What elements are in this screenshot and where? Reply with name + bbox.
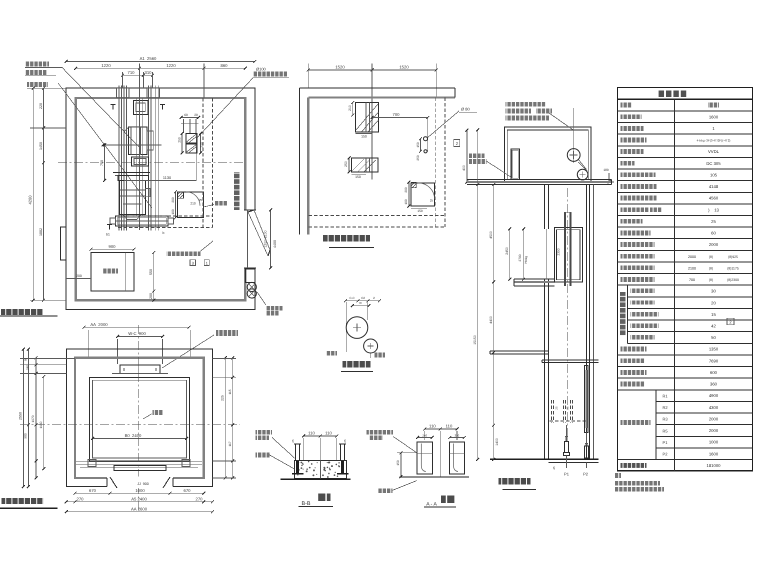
rail bracket top-left: [117, 88, 130, 98]
cw bracket dims: [181, 116, 199, 118]
svg-text:4200: 4200: [27, 195, 32, 205]
svg-text:A5 2400: A5 2400: [131, 497, 147, 502]
SEC landing slab 2: [514, 278, 555, 280]
svg-text:4900: 4900: [709, 393, 719, 398]
svg-text:70: 70: [358, 301, 362, 305]
svg-text:R2: R2: [662, 405, 668, 410]
svg-text:110: 110: [308, 431, 315, 436]
svg-text:2450: 2450: [505, 247, 509, 255]
shaft plan walls: [66, 349, 212, 487]
SEC dim door inner: [523, 229, 525, 279]
SEC buffer labels: [566, 459, 568, 468]
dim 1130: [124, 180, 196, 182]
svg-text:2000: 2000: [709, 242, 719, 247]
AA dim 110/110: [425, 428, 457, 430]
svg-text:15: 15: [711, 312, 716, 317]
motor body: [118, 176, 149, 181]
traction pulley: [364, 339, 378, 353]
svg-text:R3: R3: [662, 417, 668, 422]
table bottom label: [621, 463, 647, 468]
svg-text:220: 220: [39, 103, 43, 109]
svg-text:2100: 2100: [688, 266, 696, 270]
cw bracket rect upper: [186, 134, 197, 144]
vent hole box: [178, 192, 204, 218]
svg-text:4560: 4560: [709, 196, 719, 201]
svg-text:1000: 1000: [135, 488, 145, 493]
left dim line outer 4200: [32, 88, 34, 300]
machine shaft lines: [135, 98, 137, 216]
shaft projection dashed: [202, 98, 204, 228]
shaft plan left dims: [22, 349, 24, 487]
hole plan left wall: [298, 88, 300, 234]
SEC landing slab 3: [490, 350, 549, 352]
shaft plan bottom dim 3: [66, 511, 212, 513]
machine top square: [133, 101, 148, 115]
svg-text:200: 200: [171, 197, 175, 203]
svg-text:b: b: [163, 231, 165, 235]
svg-text:(8): (8): [709, 278, 713, 282]
svg-text:30: 30: [711, 289, 716, 294]
svg-text:4-bb,µ-3F(3-4T/2F)(-4T2): 4-bb,µ-3F(3-4T/2F)(-4T2): [697, 139, 731, 143]
anchor circles detail: [247, 282, 256, 291]
SEC deflector pulley: [577, 169, 588, 180]
SEC motor stand: [511, 149, 520, 180]
manhole leader: [257, 292, 266, 305]
traction ropes: [345, 302, 347, 328]
svg-text:25: 25: [291, 439, 295, 443]
svg-text:B-B: B-B: [302, 501, 311, 507]
svg-text:65: 65: [566, 406, 570, 410]
T mark bottom: [107, 224, 112, 226]
left extension lines: [30, 87, 66, 89]
shaft plan bottom dim 1: [75, 492, 204, 494]
table boxed 2: [727, 318, 734, 325]
T mark left: [111, 104, 116, 106]
svg-text:110: 110: [325, 431, 332, 436]
svg-text:150: 150: [417, 209, 423, 213]
svg-text:Ø 80: Ø 80: [461, 107, 470, 112]
table vertical label block: [620, 292, 626, 336]
hole 1 dims: [352, 103, 354, 116]
svg-text:60: 60: [711, 231, 716, 236]
svg-text:3: 3: [192, 261, 194, 265]
hole plan top wall: [299, 87, 455, 89]
cw bracket side dims: [181, 134, 183, 153]
svg-text:2700: 2700: [518, 254, 522, 261]
SEC shaft left wall: [544, 185, 546, 229]
svg-text:250: 250: [416, 155, 420, 161]
svg-text:P1: P1: [663, 440, 669, 445]
svg-text:60: 60: [24, 358, 28, 362]
svg-text:1600: 1600: [709, 451, 719, 456]
svg-text:310: 310: [455, 434, 460, 438]
T mark right: [160, 104, 165, 106]
svg-text:110: 110: [429, 424, 436, 429]
svg-text:20: 20: [711, 300, 716, 305]
traction labels: [326, 351, 337, 356]
svg-text:4148: 4148: [709, 184, 719, 189]
svg-text:25: 25: [343, 439, 347, 443]
hole plan ext lines: [307, 64, 309, 89]
SEC car buffer: [566, 425, 568, 441]
svg-text:1600: 1600: [709, 114, 719, 119]
leader text hoist beam: [25, 70, 47, 75]
svg-text:25: 25: [199, 198, 203, 202]
shaft plan dim AA2000: [84, 326, 189, 328]
svg-text:1200×2100: 1200×2100: [264, 230, 268, 247]
svg-text:4400: 4400: [489, 316, 493, 324]
svg-text:100: 100: [171, 209, 175, 215]
SEC main dim floors: [493, 185, 495, 460]
svg-text:45: 45: [552, 466, 556, 470]
svg-text:117: 117: [228, 441, 232, 446]
hook note: [166, 251, 200, 256]
svg-text:270: 270: [196, 497, 204, 502]
title shaft section: [499, 478, 531, 485]
motor bell flange: [113, 172, 150, 174]
AA left dim 150: [400, 453, 402, 477]
shaft plan right dims: [224, 358, 226, 478]
svg-text:1220: 1220: [166, 63, 176, 68]
shaft plan dim WC900: [118, 336, 163, 338]
svg-text:550: 550: [149, 269, 153, 275]
title shaft plan: [2, 498, 44, 504]
left wall niche: [61, 227, 67, 260]
svg-text:270: 270: [77, 497, 85, 502]
svg-text:20: 20: [194, 113, 198, 117]
SEC top notes: [506, 102, 546, 107]
SEC leader M16: [469, 154, 485, 159]
svg-text:2550: 2550: [19, 412, 23, 420]
notes: [615, 473, 621, 478]
motor internal lines: [119, 189, 145, 191]
shaft door sill top: [120, 365, 160, 374]
cabinet dim 550/200: [153, 253, 155, 301]
svg-text:Ø100: Ø100: [256, 67, 267, 72]
svg-text:25: 25: [711, 219, 716, 224]
svg-text:150: 150: [416, 142, 420, 148]
box mark 1: [204, 260, 209, 266]
svg-text:240: 240: [26, 365, 30, 370]
leader text shaft centerline: [27, 82, 48, 87]
svg-text:4300: 4300: [709, 405, 719, 410]
rail bracket leader: [162, 335, 214, 368]
svg-text:200: 200: [149, 293, 153, 299]
svg-text:1970: 1970: [31, 415, 35, 422]
AA leader sill: [367, 430, 394, 435]
svg-text:JJ 900: JJ 900: [137, 482, 149, 486]
svg-text:DC 305: DC 305: [706, 161, 721, 166]
machine mid square: [132, 157, 149, 166]
BB posts: [295, 444, 297, 461]
svg-text:210: 210: [348, 105, 352, 111]
svg-text:AA 2600: AA 2600: [131, 506, 148, 511]
SEC landing slab 4: [542, 359, 599, 361]
car label: [153, 410, 164, 415]
svg-text:P2: P2: [663, 452, 669, 457]
svg-text:181000: 181000: [707, 463, 722, 468]
car walls: [90, 377, 190, 461]
svg-text:980: 980: [24, 433, 28, 439]
svg-text:42: 42: [711, 323, 716, 328]
SEC car: [554, 228, 582, 283]
svg-text:360: 360: [710, 382, 718, 387]
shaft plan right ext: [213, 358, 237, 360]
svg-text:25: 25: [555, 406, 559, 410]
svg-text:310: 310: [145, 70, 153, 75]
svg-text:150: 150: [355, 175, 361, 179]
svg-text:1150: 1150: [39, 421, 43, 428]
guide rail left: [118, 86, 120, 231]
svg-text:C2: C2: [361, 296, 365, 300]
traction dims: [346, 300, 380, 302]
SEC shaft right wall: [586, 185, 588, 460]
BB anchor feet: [296, 461, 299, 473]
svg-text:(8): (8): [709, 266, 713, 270]
svg-text:700: 700: [689, 278, 695, 282]
svg-text:1450: 1450: [39, 142, 43, 150]
door dim 1200x2100: [270, 210, 272, 268]
svg-text:150: 150: [361, 134, 367, 138]
dim 1220/1220/860: [76, 67, 246, 69]
title traction: [343, 361, 371, 367]
box mark 3: [190, 260, 196, 266]
BB leader sill: [256, 430, 273, 435]
svg-text:1350: 1350: [709, 347, 719, 352]
svg-text:(8)925: (8)925: [728, 255, 738, 259]
BB concrete band: [295, 461, 347, 479]
hole plan dashed walls: [434, 98, 436, 228]
svg-text:105: 105: [710, 172, 718, 177]
shaft centerlines: [20, 424, 240, 426]
svg-text:4500: 4500: [489, 231, 493, 239]
svg-text:2000: 2000: [709, 416, 719, 421]
svg-text:W-C 900: W-C 900: [128, 331, 146, 336]
svg-text:750kg: 750kg: [524, 256, 528, 265]
cabinet dim 200 left: [66, 278, 91, 280]
leader text 1-1 cut line: [25, 62, 49, 67]
hole plan dim 1520/1520: [308, 69, 436, 71]
machine vertical centerline: [139, 64, 141, 231]
SEC dim left machine room: [466, 130, 468, 182]
svg-text:P2: P2: [583, 472, 589, 477]
cw bracket rect lower: [186, 144, 197, 153]
table row labels: [621, 114, 642, 119]
AA leader pad: [378, 488, 393, 493]
svg-text:115: 115: [228, 389, 232, 394]
SEC ghost car dashed: [551, 400, 553, 422]
machine center hline: [103, 144, 161, 146]
corner drain dims: [408, 182, 410, 206]
BB dim 110/110: [304, 435, 337, 437]
AA post right: [449, 442, 464, 474]
SEC machine room walls: [505, 127, 592, 182]
vent hole dims: [175, 192, 177, 218]
SEC pit floor: [490, 458, 599, 460]
SEC dim door 2450: [509, 229, 511, 279]
machine upper body: [129, 127, 148, 155]
svg-text:700: 700: [393, 112, 401, 117]
dim 700 and nodes: [372, 116, 428, 118]
svg-text:200: 200: [76, 274, 82, 278]
svg-text:150: 150: [396, 460, 400, 466]
dim 2560 top: [66, 61, 255, 63]
corner drain detail: [411, 183, 434, 206]
svg-text:1: 1: [206, 261, 208, 265]
svg-text:600: 600: [710, 370, 718, 375]
svg-text:AA 2000: AA 2000: [90, 322, 108, 327]
svg-text:1000: 1000: [709, 440, 719, 445]
SEC rope centerline: [567, 188, 569, 442]
BB leader pad: [256, 453, 270, 458]
machine room plan outer wall: [66, 88, 255, 309]
AA baseline: [399, 476, 469, 478]
svg-text:1130: 1130: [163, 176, 171, 180]
SEC counterweight: [585, 366, 589, 433]
svg-text:P1: P1: [564, 472, 570, 477]
svg-text:250: 250: [178, 137, 182, 143]
svg-text:b1: b1: [106, 233, 110, 237]
SEC hoist rope: [572, 108, 574, 163]
svg-text:400: 400: [462, 165, 466, 171]
svg-text:2000: 2000: [709, 428, 719, 433]
BB baseline: [281, 478, 351, 480]
svg-text:110: 110: [446, 424, 453, 429]
dim 750 vertical: [104, 145, 106, 181]
AA post left: [417, 442, 432, 474]
hole leader d80: [428, 111, 459, 138]
svg-text:100: 100: [404, 199, 408, 205]
svg-text:15150: 15150: [473, 335, 477, 345]
svg-text:670: 670: [184, 488, 192, 493]
traction sheave: [346, 317, 368, 339]
shaft plan left ext: [20, 358, 75, 360]
bedplate: [116, 216, 169, 226]
svg-text:1882: 1882: [39, 228, 43, 236]
rail bracket top-right: [147, 88, 160, 98]
table merged label: [621, 420, 651, 425]
vent hole leader: [204, 205, 214, 208]
svg-text:C-C: C-C: [349, 296, 355, 300]
svg-text:250: 250: [344, 161, 348, 167]
svg-text:(8)2300: (8)2300: [727, 278, 739, 282]
hole 2 dims: [348, 158, 350, 172]
svg-text:B0 2400: B0 2400: [125, 433, 142, 438]
shaft plan bottom dim 2: [66, 501, 212, 503]
table header: [659, 91, 688, 98]
svg-text:240: 240: [422, 434, 427, 438]
svg-text:860: 860: [221, 63, 229, 68]
svg-text:210: 210: [190, 202, 196, 206]
svg-text:670: 670: [89, 488, 97, 493]
door opening right wall: [244, 210, 257, 268]
title machine room plan: [1, 309, 43, 315]
cabinet dim 900: [91, 248, 134, 250]
shaft plan ext top: [88, 330, 90, 357]
SEC machine floor slab: [467, 179, 612, 181]
box mark 2: [454, 140, 460, 147]
svg-text:A1 2560: A1 2560: [140, 56, 157, 61]
svg-text:1520: 1520: [399, 65, 409, 70]
spec table grid: [618, 88, 753, 471]
svg-text:1220: 1220: [101, 63, 111, 68]
svg-text:R1: R1: [662, 393, 668, 398]
SEC sheave: [567, 149, 580, 162]
svg-text:(8): (8): [709, 255, 713, 259]
svg-text:R5: R5: [662, 428, 668, 433]
svg-text:) 13: ) 13: [708, 207, 719, 212]
svg-text:25: 25: [430, 199, 434, 203]
svg-text:710: 710: [128, 70, 136, 75]
car dim B0 2400: [93, 438, 187, 440]
svg-text:1400: 1400: [495, 438, 499, 446]
hole 1: [355, 103, 378, 133]
left dim line inner: [43, 88, 45, 300]
svg-text:225: 225: [221, 395, 225, 401]
SEC cw buffer: [585, 433, 587, 446]
car platform: [76, 461, 202, 463]
vent vertical label: [234, 172, 240, 210]
svg-text:4400: 4400: [273, 240, 277, 248]
svg-text:200: 200: [404, 187, 408, 193]
main horizontal centerline: [58, 162, 245, 164]
SEC crosshead bars: [564, 212, 566, 286]
extension lines top: [139, 64, 141, 89]
svg-text:180: 180: [603, 168, 609, 172]
svg-text:60: 60: [184, 113, 188, 117]
guide rail right: [148, 86, 150, 231]
door opening bottom: [107, 477, 173, 489]
svg-text:50: 50: [711, 335, 716, 340]
motor bottom cap: [123, 214, 127, 219]
hole plan centerline: [371, 64, 373, 180]
svg-text:7690: 7690: [709, 358, 719, 363]
dim 710/310: [123, 74, 153, 76]
control cabinet: [91, 253, 134, 292]
svg-text:1520: 1520: [335, 65, 345, 70]
SEC main dim total: [477, 130, 479, 459]
hole 2: [351, 158, 378, 172]
svg-text:VVDL: VVDL: [708, 149, 720, 154]
bedplate tabs: [110, 218, 116, 224]
wall box below door: [245, 269, 255, 283]
svg-text:(8)1175: (8)1175: [727, 266, 739, 270]
svg-text:900: 900: [109, 244, 117, 249]
svg-text:2000: 2000: [688, 255, 696, 259]
title hole plan: [323, 235, 370, 241]
svg-text:2350: 2350: [557, 248, 561, 255]
